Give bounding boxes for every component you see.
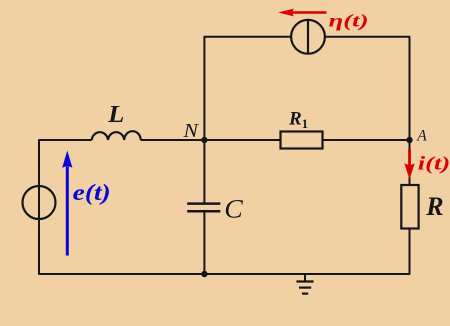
wire: vertical from node N down to capacitor: [203, 140, 205, 203]
wire: left vertical branch: [38, 140, 40, 274]
inductor L: [92, 131, 141, 140]
blue arrow for e(t): [66, 167, 69, 256]
wire: right vertical from top wire to node A: [409, 37, 411, 140]
node A junction dot: [406, 137, 412, 143]
resistor R box: [401, 185, 418, 229]
svg-text:A: A: [416, 128, 427, 145]
wire: vertical from node N up to top wire: [203, 37, 205, 140]
voltage source e(t) circle: [23, 186, 56, 219]
wire: mid horizontal left segment (left wire to inductor): [38, 139, 91, 141]
svg-text:R: R: [425, 192, 443, 221]
svg-text:e(t): e(t): [73, 180, 111, 205]
svg-text:η(t): η(t): [329, 11, 369, 32]
capacitor C plates: [187, 202, 220, 205]
current source internal vertical bar: [307, 20, 309, 54]
svg-text:C: C: [224, 195, 243, 224]
wire: bottom horizontal: [38, 273, 410, 275]
current source eta(t) circle: [291, 20, 325, 54]
wire: top horizontal left segment: [204, 36, 292, 38]
node N junction dot: [201, 137, 207, 143]
wire: top horizontal right segment: [325, 36, 410, 38]
svg-text:L: L: [107, 102, 124, 128]
wire: mid horizontal (inductor to R1): [141, 139, 281, 141]
wire: mid horizontal (R1 to node A): [323, 139, 411, 141]
junction dot at bottom of capacitor branch: [201, 271, 207, 277]
resistor R1 box: [281, 132, 323, 149]
wire: vertical from capacitor down to bottom wire: [203, 211, 205, 274]
red arrow for eta(t) current direction: [292, 11, 327, 14]
svg-text:N: N: [182, 120, 199, 142]
wire: right vertical below R to bottom wire: [409, 229, 411, 275]
ground symbol: [304, 274, 306, 282]
svg-text:i(t): i(t): [418, 154, 450, 175]
wire: right vertical from node A down to R: [409, 140, 411, 185]
red arrow for i(t) current direction: [408, 150, 411, 165]
